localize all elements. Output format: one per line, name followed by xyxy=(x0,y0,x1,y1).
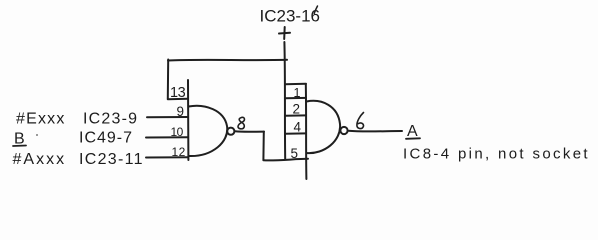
node VCC label IC23-16 xyxy=(260,7,320,26)
stray dot after B xyxy=(36,134,38,136)
svg-text:IC23-16: IC23-16 xyxy=(260,7,320,26)
svg-text:4: 4 xyxy=(294,120,302,135)
svg-text:5: 5 xyxy=(291,146,299,161)
svg-text:#Axxx: #Axxx xyxy=(13,151,67,168)
wire VCC vertical from + down to pin5 rail xyxy=(283,42,286,159)
wire pin box line under 1 xyxy=(285,97,306,99)
wire pin9 input xyxy=(147,116,188,118)
pin number 2 xyxy=(293,102,301,117)
wire U1 output right segment xyxy=(235,130,264,132)
pin number 4 xyxy=(294,120,302,135)
pin number 12 xyxy=(172,145,186,159)
underline of B xyxy=(13,145,26,148)
pin number 1 xyxy=(294,86,301,100)
svg-text:12: 12 xyxy=(172,145,186,159)
wire U2 output to node A xyxy=(348,130,402,133)
nand gate U1 output bubble xyxy=(227,128,234,135)
svg-text:9: 9 xyxy=(177,104,185,119)
pin number 8 output label xyxy=(238,117,244,129)
wire pin10 input xyxy=(146,136,188,138)
pin number 6 output label xyxy=(357,113,364,129)
wire U1 output to pin5 xyxy=(263,159,308,161)
svg-text:IC8-4 pin, not socket: IC8-4 pin, not socket xyxy=(403,146,590,163)
pin number 13 xyxy=(170,85,186,101)
pin number 5 xyxy=(291,146,299,161)
flourish on 6 of IC23-16 xyxy=(314,6,317,14)
svg-text:IC23-11: IC23-11 xyxy=(79,151,144,168)
svg-text:10: 10 xyxy=(171,125,184,139)
wire pin13 drop xyxy=(167,60,169,100)
wire pin box line under 2 xyxy=(285,114,306,116)
svg-text:IC23-9: IC23-9 xyxy=(83,111,138,128)
power plus symbol xyxy=(279,27,290,39)
nand gate U2 output bubble xyxy=(340,127,347,134)
wire pin box top edge xyxy=(285,83,306,86)
wire top rail from pin13 drop to VCC vertical xyxy=(168,59,287,62)
underline of A xyxy=(406,137,420,140)
pin number 9 xyxy=(177,104,185,119)
nand gate U2 body xyxy=(307,101,341,153)
wire gate1 flat edge xyxy=(187,80,189,160)
svg-text:#Exxx: #Exxx xyxy=(16,111,66,128)
svg-text:13: 13 xyxy=(170,85,186,101)
svg-text:2: 2 xyxy=(293,102,301,117)
svg-text:A: A xyxy=(407,123,418,140)
pin number 10 xyxy=(171,125,184,139)
nand gate U1 body xyxy=(189,106,228,156)
wire pin12 input xyxy=(146,156,188,158)
wire pin box line under 4 xyxy=(285,132,306,134)
wire pin13 box bottom xyxy=(168,98,188,100)
svg-text:1: 1 xyxy=(294,86,301,100)
wire U1 output down segment xyxy=(262,132,264,160)
svg-text:IC49-7: IC49-7 xyxy=(79,130,133,147)
wire gate2 right vertical / flat edge xyxy=(305,84,308,179)
